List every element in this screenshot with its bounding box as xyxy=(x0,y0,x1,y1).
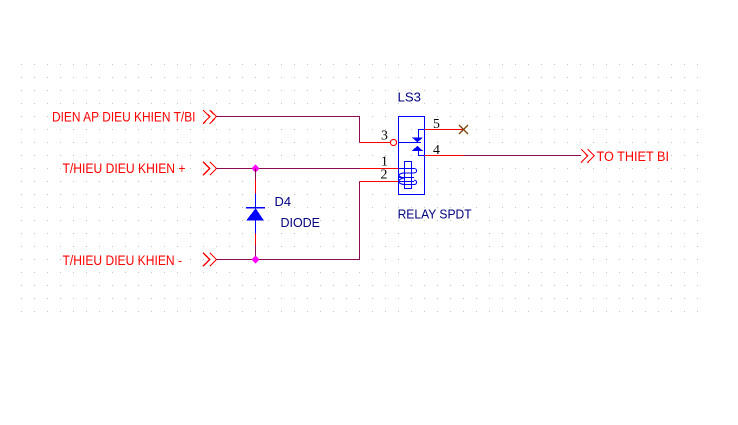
svg-text:T/HIEU DIEU KHIEN +: T/HIEU DIEU KHIEN + xyxy=(63,161,186,176)
relay NC contact arrow xyxy=(412,137,424,142)
svg-text:5: 5 xyxy=(433,116,440,131)
svg-text:LS3: LS3 xyxy=(398,90,422,105)
svg-text:4: 4 xyxy=(433,142,440,157)
junction node diode bottom xyxy=(252,255,260,263)
no-connect X on pin 5 xyxy=(459,125,468,134)
port DIEN AP DIEU KHIEN T/BI xyxy=(52,110,217,125)
wire port1 to relay pin 3 xyxy=(217,117,360,143)
svg-text:2: 2 xyxy=(381,167,388,182)
port TO THIET BI xyxy=(581,149,669,164)
relay coil loops xyxy=(399,169,417,185)
junction node diode top xyxy=(252,164,260,172)
diode D4 xyxy=(246,169,265,260)
port T/HIEU DIEU KHIEN + xyxy=(63,161,217,176)
wire port3 to relay pin 2 xyxy=(217,182,360,260)
relay LS3 body xyxy=(399,117,425,195)
wire port2 to relay pin 1 xyxy=(217,168,361,170)
pin 1 xyxy=(360,154,399,169)
svg-text:DIODE: DIODE xyxy=(281,215,321,230)
port T/HIEU DIEU KHIEN - xyxy=(63,253,217,268)
pin 2 xyxy=(360,167,399,182)
svg-text:3: 3 xyxy=(381,128,388,143)
wire pin4 to output port xyxy=(463,155,581,157)
svg-text:TO THIET BI: TO THIET BI xyxy=(597,149,670,164)
svg-text:D4: D4 xyxy=(275,194,292,209)
svg-text:DIEN AP DIEU KHIEN T/BI: DIEN AP DIEU KHIEN T/BI xyxy=(52,110,196,125)
svg-text:T/HIEU DIEU KHIEN -: T/HIEU DIEU KHIEN - xyxy=(63,253,183,268)
pin 3 xyxy=(360,128,397,146)
relay NO contact arrow xyxy=(412,146,423,151)
pin 4 xyxy=(425,142,464,157)
pin 5 xyxy=(425,116,464,131)
svg-text:RELAY SPDT: RELAY SPDT xyxy=(398,207,472,222)
